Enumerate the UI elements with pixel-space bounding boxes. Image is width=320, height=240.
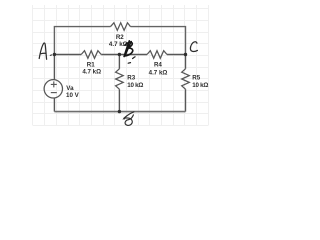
junction node B bbox=[118, 53, 121, 56]
resistor R3 bbox=[116, 69, 124, 89]
svg-text:10 kΩ: 10 kΩ bbox=[127, 82, 143, 89]
wire node B down to R3 bbox=[118, 55, 120, 69]
wire node A to R1 bbox=[54, 54, 81, 56]
voltage source Va circle bbox=[44, 80, 62, 98]
resistor R5 bbox=[182, 69, 190, 89]
handwritten dash below B bbox=[128, 62, 130, 65]
wire R5 to bottom-right corner bbox=[185, 89, 187, 111]
svg-text:R3: R3 bbox=[127, 75, 135, 82]
handwritten node letter C bbox=[190, 42, 197, 52]
svg-text:R5: R5 bbox=[192, 75, 200, 82]
plus sign of Va bbox=[51, 81, 57, 87]
junction node A bbox=[53, 53, 56, 56]
wire R1 to node B bbox=[101, 54, 119, 56]
handwritten node letter A bbox=[39, 43, 46, 59]
svg-text:4.7 kΩ: 4.7 kΩ bbox=[82, 68, 101, 75]
svg-text:4.7 kΩ: 4.7 kΩ bbox=[149, 69, 168, 76]
svg-text:10 V: 10 V bbox=[66, 92, 80, 99]
handwritten node letter D bbox=[124, 112, 134, 125]
wire R2 to top-right corner bbox=[131, 27, 186, 55]
wire R3 to bottom node bbox=[118, 89, 120, 111]
svg-text:10 kΩ: 10 kΩ bbox=[192, 82, 208, 89]
wire R4 to node C bbox=[167, 54, 186, 56]
handwritten flick right of B bbox=[133, 57, 135, 59]
stray pencil dash left of node A bbox=[50, 54, 52, 57]
wire node A down to source Va bbox=[53, 55, 55, 80]
svg-text:R4: R4 bbox=[154, 62, 162, 69]
minus sign of Va bbox=[51, 92, 57, 94]
resistor R1 bbox=[81, 51, 101, 59]
wire node B to R4 bbox=[119, 54, 147, 56]
wire top-left corner to R2 bbox=[54, 27, 110, 55]
arrowhead cusp of letter D bbox=[122, 118, 125, 120]
svg-text:R2: R2 bbox=[116, 34, 124, 41]
resistor R4 bbox=[147, 51, 167, 59]
wire node C down to R5 bbox=[185, 55, 187, 69]
junction node C bbox=[184, 53, 187, 56]
wire source Va to bottom wire bbox=[53, 98, 55, 112]
handwritten node letter B bbox=[124, 41, 133, 57]
bottom wire bbox=[54, 111, 185, 113]
junction node D bottom bbox=[118, 110, 121, 113]
resistor R2 bbox=[111, 23, 131, 31]
